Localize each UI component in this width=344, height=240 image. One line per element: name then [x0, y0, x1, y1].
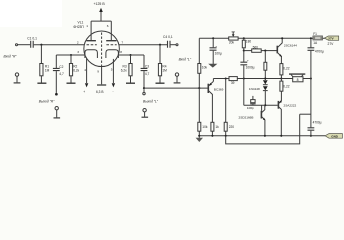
svg-text:2SD2166B: 2SD2166B	[239, 116, 254, 120]
wire tube out to BC369 base	[144, 87, 208, 89]
node 100u	[212, 37, 214, 39]
resistor R4	[159, 45, 161, 64]
svg-text:2SA2222: 2SA2222	[284, 104, 297, 108]
resistor 10k lower	[198, 122, 201, 131]
svg-text:6: 6	[107, 24, 109, 28]
pot 20k	[229, 37, 238, 40]
capacitor 4700u bottom	[308, 128, 315, 130]
svg-text:100p: 100p	[247, 106, 254, 110]
capacitor C1	[31, 41, 34, 48]
svg-text:С2: С2	[59, 65, 63, 69]
node R1-grid	[40, 44, 42, 46]
capacitor 1000u	[243, 51, 245, 62]
resistor 560	[244, 50, 252, 52]
svg-text:Выход "R": Выход "R"	[39, 99, 55, 103]
ground pin output L	[143, 109, 146, 112]
node line lower	[244, 104, 278, 106]
output terminal L	[143, 89, 145, 92]
svg-text:3: 3	[77, 50, 79, 54]
diode D2 1N4148	[263, 86, 268, 90]
anode plates	[86, 40, 116, 42]
+125V arrow	[100, 11, 102, 21]
transistor 2SA2222	[277, 101, 279, 109]
svg-text:4,7: 4,7	[59, 72, 64, 76]
svg-text:6,2к: 6,2к	[73, 69, 79, 73]
svg-text:4700µ: 4700µ	[313, 121, 322, 125]
input terminal R	[16, 44, 18, 46]
net tag 27V	[324, 36, 338, 40]
svg-text:6,2к: 6,2к	[121, 69, 127, 73]
wire	[34, 44, 85, 46]
svg-text:0,22: 0,22	[283, 85, 289, 89]
fuse F1	[313, 36, 323, 40]
transistor 2SD2166 driver	[261, 105, 263, 110]
capacitor C4	[168, 41, 171, 48]
input terminal L	[176, 44, 178, 46]
capacitor C3	[143, 55, 145, 68]
svg-text:0,22: 0,22	[283, 67, 289, 71]
resistor 220 column	[225, 79, 227, 123]
resistor 180	[243, 37, 245, 39]
resistor R1	[40, 45, 42, 64]
svg-text:BC369: BC369	[214, 87, 224, 91]
svg-text:100µ: 100µ	[215, 51, 222, 55]
svg-text:1М: 1М	[162, 69, 167, 73]
pin9 lead	[101, 65, 103, 85]
svg-text:1: 1	[86, 24, 88, 28]
output terminal R	[55, 93, 58, 96]
capacitor 4700u top	[308, 48, 315, 51]
svg-text:4700µ: 4700µ	[315, 49, 324, 53]
diode D1 1N4148	[263, 80, 268, 84]
svg-text:8: 8	[120, 50, 122, 54]
net tag GND	[325, 134, 342, 139]
capacitor C2	[55, 55, 57, 68]
resistor R2	[70, 55, 72, 64]
svg-text:-: -	[113, 89, 114, 93]
resistor 1k	[211, 122, 214, 131]
svg-text:Выход "L": Выход "L"	[143, 99, 159, 103]
node R4	[159, 44, 161, 46]
svg-text:2SC6144: 2SC6144	[284, 44, 297, 48]
svg-text:С3: С3	[145, 65, 149, 69]
wire	[18, 44, 31, 46]
speaker	[281, 78, 311, 80]
wire grid right	[119, 44, 167, 46]
svg-text:560: 560	[253, 45, 259, 49]
node diode chain top	[264, 50, 266, 52]
svg-text:1k: 1k	[215, 125, 219, 129]
svg-text:С4 0,1: С4 0,1	[163, 35, 173, 39]
wire speaker return	[300, 113, 311, 115]
node output L	[143, 87, 145, 89]
svg-text:9: 9	[97, 70, 99, 74]
node R3	[129, 54, 131, 56]
svg-text:1М: 1М	[45, 69, 50, 73]
svg-text:1000µ: 1000µ	[246, 66, 255, 70]
bottom rail	[198, 135, 325, 137]
svg-text:8: 8	[297, 78, 299, 82]
U loop wire	[226, 114, 300, 144]
anode leads and supply bar	[91, 21, 111, 40]
capacitor 100u	[212, 38, 214, 47]
svg-text:GND: GND	[331, 135, 339, 139]
resistor 0.22 upper	[280, 64, 283, 75]
wire cathode left	[56, 54, 85, 56]
node base divider	[198, 87, 200, 89]
svg-text:VL1: VL1	[78, 21, 84, 25]
ground arrow	[208, 64, 217, 68]
svg-text:6Н23П: 6Н23П	[74, 25, 85, 29]
svg-text:Вход "L": Вход "L"	[179, 57, 192, 61]
svg-text:4: 4	[84, 68, 86, 72]
resistor 39	[229, 77, 237, 81]
bias resistor	[264, 51, 266, 63]
svg-text:5: 5	[111, 68, 113, 72]
ground pin output R	[55, 107, 58, 110]
capacitor 100p	[252, 96, 254, 100]
ground column with caps	[310, 38, 312, 47]
svg-text:220: 220	[229, 125, 235, 129]
svg-text:+: +	[247, 59, 249, 63]
transistor BC369	[207, 84, 209, 93]
svg-text:20k: 20k	[229, 40, 235, 44]
tube VL1 circle	[84, 31, 120, 67]
cathode left	[85, 50, 98, 58]
top rail	[199, 37, 228, 39]
ground symbol bottom left	[198, 136, 200, 138]
resistor R3	[130, 55, 132, 64]
svg-text:4,7: 4,7	[145, 72, 150, 76]
svg-text:39: 39	[231, 81, 235, 85]
left column	[198, 38, 200, 63]
svg-text:1N4148: 1N4148	[249, 87, 260, 91]
svg-text:27V: 27V	[328, 42, 335, 46]
node fb	[243, 77, 245, 79]
resistor 10k upper	[198, 64, 201, 74]
emitter wire to 39	[213, 78, 229, 80]
svg-text:7: 7	[121, 41, 123, 45]
wire cathode right	[118, 54, 144, 56]
ground pin input R	[15, 73, 18, 76]
svg-text:С1 0,1: С1 0,1	[27, 37, 37, 41]
node 220	[225, 77, 227, 79]
svg-text:+125 В: +125 В	[94, 2, 106, 6]
transistor 2SC6144	[276, 46, 278, 54]
svg-text:2: 2	[77, 41, 79, 45]
resistor 0.22 lower	[280, 79, 282, 82]
cathode right	[106, 50, 119, 58]
heater lead pin4	[86, 58, 88, 83]
svg-text:Вход "R": Вход "R"	[4, 54, 18, 58]
svg-text:F1: F1	[313, 32, 317, 36]
svg-text:10k: 10k	[202, 125, 208, 129]
svg-text:27V: 27V	[328, 37, 333, 41]
svg-text:180: 180	[246, 39, 252, 43]
svg-text:+: +	[215, 44, 217, 48]
node 180/560	[243, 50, 245, 52]
grid dashes	[87, 44, 117, 46]
ground pin input L	[175, 73, 178, 76]
svg-text:10k: 10k	[202, 66, 208, 70]
center divider	[101, 33, 103, 64]
heater lead pin5	[112, 59, 114, 83]
node R2	[70, 54, 72, 56]
svg-text:+: +	[83, 90, 85, 94]
svg-text:6,3 В: 6,3 В	[96, 90, 103, 94]
